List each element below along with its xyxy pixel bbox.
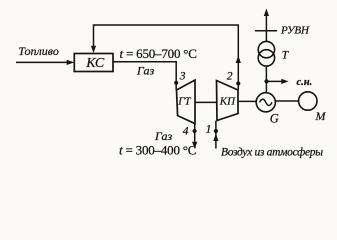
svg-text:ГТ: ГТ (177, 95, 191, 107)
svg-text:Воздух из атмосферы: Воздух из атмосферы (221, 146, 323, 158)
svg-text:3: 3 (179, 71, 186, 83)
svg-text:4: 4 (183, 125, 189, 137)
svg-text:1: 1 (206, 121, 212, 135)
svg-text:КС: КС (85, 56, 105, 71)
svg-text:G: G (270, 111, 279, 125)
svg-text:Топливо: Топливо (18, 44, 59, 58)
svg-text:t = 650–700 °C: t = 650–700 °C (120, 46, 197, 61)
svg-text:КП: КП (219, 96, 236, 108)
svg-text:Газ: Газ (154, 129, 173, 143)
svg-text:РУВН: РУВН (280, 25, 310, 37)
svg-text:t = 300–400 °C: t = 300–400 °C (119, 142, 196, 157)
svg-text:с.н.: с.н. (297, 77, 313, 88)
svg-text:М: М (315, 109, 327, 123)
svg-text:Газ: Газ (136, 64, 155, 78)
svg-text:2: 2 (227, 70, 233, 82)
